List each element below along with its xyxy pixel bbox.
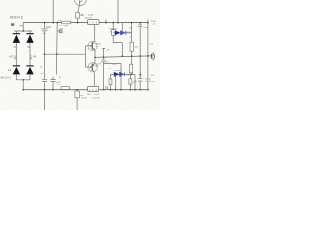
svg-text:C047: C047 — [94, 94, 100, 96]
svg-text:47K: 47K — [64, 25, 68, 27]
wire input column — [55, 23, 58, 75]
diode DZ2 blue — [114, 72, 125, 77]
driver transistor circle Q1 — [74, 0, 86, 6]
wire input stub — [57, 30, 59, 32]
wire vertical x53 — [52, 0, 54, 23]
capacitor C8 tiny bars right of bottom box — [106, 86, 108, 89]
wire diode branch top — [113, 32, 131, 34]
wire R1 to rail — [77, 18, 79, 23]
resistor R1 vertical — [76, 13, 80, 19]
tick mark D1 — [14, 46, 17, 48]
resistor R3 on bottom rail — [61, 87, 70, 90]
wire AC tick left — [15, 58, 17, 60]
diode DZ1 blue — [115, 30, 126, 35]
svg-text:AC16: AC16 — [9, 54, 17, 58]
svg-text:25V: 25V — [40, 73, 44, 75]
capacitor C7 bottom of x140 — [138, 79, 142, 82]
wire bridge top node — [14, 23, 32, 31]
svg-text:2N: 2N — [80, 15, 83, 17]
wire bridge bottom node — [16, 80, 30, 90]
svg-text:2 K 9: 2 K 9 — [89, 21, 98, 25]
resistor R7 x110 — [109, 74, 111, 79]
svg-text:2 K 8: 2 K 8 — [89, 88, 98, 92]
wire feed from top edge x118 — [117, 0, 119, 23]
capacitor C1 2200u top — [42, 23, 48, 80]
wire base bus — [45, 46, 86, 67]
capacitor C2 2200u bottom — [42, 79, 47, 89]
label small dark mark — [11, 23, 14, 26]
wire x115.7 — [115, 74, 117, 89]
transistor Q3 — [86, 62, 98, 72]
diode D2 — [26, 34, 33, 43]
svg-text:47K: 47K — [58, 20, 62, 22]
speaker LS1 — [151, 53, 155, 61]
capacitor C4 column x140 — [139, 23, 141, 25]
wire L corner — [104, 63, 121, 89]
wire AC tick right — [30, 58, 32, 60]
bottom box U2 — [88, 86, 99, 91]
wire top rail right — [99, 22, 148, 24]
capacitor C3 bottom second — [50, 77, 55, 90]
svg-text:2200: 2200 — [46, 26, 52, 29]
resistor R6 column x131 — [131, 23, 133, 43]
svg-text:BD124-2: BD124-2 — [1, 75, 12, 79]
wire bridge right arm — [29, 31, 31, 66]
svg-text:C 0.47uF: C 0.47uF — [91, 98, 101, 100]
wire mid output rail — [94, 56, 150, 58]
wire stub x106 — [105, 19, 107, 22]
transistor Q2 — [86, 41, 98, 50]
wire Q2 emitter to rail — [94, 50, 96, 57]
svg-text:BD634-D: BD634-D — [10, 15, 24, 19]
wire top rail left — [23, 22, 87, 24]
svg-text:10K: 10K — [87, 94, 91, 96]
svg-text:1N4148: 1N4148 — [109, 28, 117, 30]
svg-text:BD241: BD241 — [85, 17, 92, 19]
junction dots — [22, 22, 148, 91]
resistor R4 below rail — [76, 90, 78, 91]
wire bottom rail right — [99, 89, 148, 91]
diode D4 — [26, 66, 33, 80]
svg-text:1N4148: 1N4148 — [114, 70, 122, 72]
resistor R8 x130 — [129, 74, 131, 79]
svg-text:0C: 0C — [95, 66, 98, 68]
svg-text:47K: 47K — [60, 28, 64, 30]
svg-text:16V: 16V — [151, 81, 155, 83]
wire bridge left arm — [15, 31, 17, 66]
wire ground drop from bottom rail — [44, 90, 46, 110]
svg-text:4R7: 4R7 — [80, 95, 85, 97]
wire Q3 emitter up — [94, 57, 96, 62]
capacitor C6 mid column x103.6 — [103, 57, 105, 60]
diode D3 — [13, 66, 20, 80]
resistor R2 horizontal on rail — [62, 21, 71, 24]
resistor R9 column x131 mid — [131, 56, 133, 64]
wire x135 — [134, 74, 136, 89]
wire Q3 collector down — [93, 72, 95, 86]
diode D1 — [13, 34, 20, 43]
wire stub above mid rail — [102, 48, 105, 57]
wire diode branch bottom — [110, 73, 135, 75]
capacitor C5 column x148 — [147, 19, 149, 79]
wire Q1 down — [78, 5, 80, 12]
wire bottom rail left — [23, 89, 87, 91]
resistor R5 column x113 — [112, 23, 114, 30]
svg-text:10K: 10K — [134, 47, 139, 49]
trimmer symbol — [59, 30, 62, 33]
top box U1 — [88, 20, 99, 25]
svg-text:300K: 300K — [126, 32, 132, 35]
svg-text:100uF: 100uF — [81, 98, 88, 100]
svg-text:0.46: 0.46 — [31, 54, 37, 58]
svg-text:(+V): (+V) — [151, 19, 156, 23]
svg-text:300K: 300K — [126, 73, 132, 76]
wire Q2 collector — [94, 25, 96, 42]
svg-text:3O55: 3O55 — [88, 15, 94, 17]
transistor Q1 inner lead — [79, 0, 82, 5]
svg-text:9C: 9C — [95, 46, 98, 48]
tick mark D2 — [27, 46, 30, 48]
